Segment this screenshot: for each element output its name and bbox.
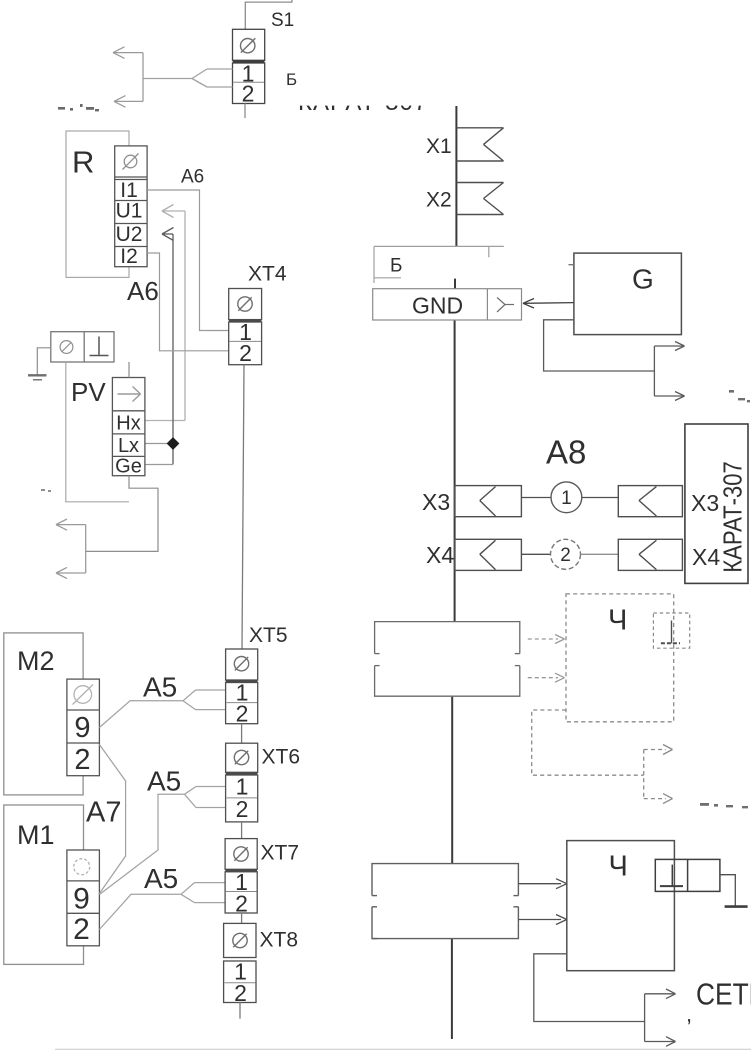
XT6 pin symbol — [234, 750, 248, 764]
svg-text:2: 2 — [235, 891, 248, 917]
arrow pair (G out) — [654, 342, 684, 401]
connector X4 (left) — [455, 539, 522, 570]
GND socket symbol — [497, 298, 514, 313]
XT4 pin symbol — [238, 297, 252, 311]
svg-text:A7: A7 — [86, 797, 121, 829]
wire M2:2 down to M1:9 — [99, 745, 125, 894]
svg-text:A5: A5 — [144, 863, 178, 894]
resistor unit R (outer box) — [66, 131, 129, 277]
faint clipped text КАРАТ-307 (bottom tips only) — [294, 86, 430, 116]
svg-text:9: 9 — [73, 883, 90, 916]
junction box (lower, two rows) — [372, 864, 518, 939]
PV terminal strip — [112, 378, 144, 476]
wire M2:9 to XT5 fork — [99, 701, 183, 728]
wire G output fork — [544, 320, 655, 371]
svg-text:X2: X2 — [426, 189, 452, 212]
svg-text:КАРАТ-307: КАРАТ-307 — [719, 461, 748, 573]
connector X4 (right) — [618, 539, 682, 570]
PV arrow-in symbol — [118, 387, 141, 402]
wire Ч bottom fork — [534, 954, 645, 1022]
wire XT5 to XT6 — [241, 724, 243, 744]
faint specks — [41, 489, 51, 492]
svg-text:2: 2 — [234, 980, 247, 1006]
connector X3 (left) — [455, 486, 522, 517]
svg-text:2: 2 — [73, 913, 90, 946]
probe symbol (dashed box) — [661, 621, 680, 644]
arrow pair (PV output) — [56, 519, 86, 579]
dashed wire Ч output — [532, 710, 666, 799]
S1 pin symbol (circle-slash) — [241, 38, 256, 53]
svg-text:X4: X4 — [692, 544, 720, 570]
dashed probe box — [653, 613, 689, 648]
arrow from G to GND — [523, 299, 574, 309]
flow meter M2 (outer box) — [4, 633, 83, 795]
ground — [28, 375, 47, 380]
junction (Lx tap) — [167, 437, 180, 450]
svg-text:X4: X4 — [426, 542, 454, 568]
battery symbol — [660, 865, 683, 887]
converter Ч (dashed box) — [566, 594, 674, 722]
arrow pair (СЕТЬ) — [645, 989, 676, 1046]
terminal block XT7 — [225, 839, 257, 913]
wire M1:2 to XT7 fork — [99, 894, 181, 929]
svg-text:I2: I2 — [120, 245, 138, 268]
faint clipped text row (left) — [58, 104, 99, 111]
svg-text:Hx: Hx — [116, 413, 140, 435]
svg-text:XT4: XT4 — [248, 263, 287, 286]
svg-text:2: 2 — [236, 701, 249, 727]
sensor circle symbol — [60, 341, 73, 354]
svg-text:X3: X3 — [422, 489, 450, 515]
M2 terminal strip — [67, 679, 100, 776]
wire XT4 to XT5 — [242, 365, 244, 649]
terminal block XT6 — [226, 743, 258, 822]
connector X2 — [456, 183, 503, 215]
svg-text:Lx: Lx — [118, 435, 139, 457]
svg-text:XT7: XT7 — [261, 842, 300, 865]
R terminal strip — [115, 146, 147, 267]
svg-text:XT5: XT5 — [249, 624, 288, 647]
wire I2 to XT4:2 — [147, 253, 229, 351]
wire — [582, 497, 619, 499]
svg-text:X1: X1 — [426, 135, 452, 158]
G stub — [569, 264, 575, 266]
dashed arrow (row 1 to Ч) — [528, 638, 558, 640]
R pin symbol (circle-slash) — [123, 154, 139, 170]
wire U1 (arrow) down to PV:Hx — [145, 205, 185, 421]
connector X1 — [456, 128, 503, 161]
wire (top feed into S1) — [245, 0, 292, 29]
arrow (row 2 to Ч) — [518, 915, 566, 925]
svg-text:Ч: Ч — [608, 605, 627, 637]
arrow (row 1 to Ч) — [518, 879, 566, 889]
cable fork A5 at XT6 — [185, 787, 226, 808]
flow meter M1 (outer box) — [4, 805, 84, 964]
svg-text:M1: M1 — [17, 820, 55, 850]
wire — [521, 497, 551, 499]
svg-text:M2: M2 — [17, 646, 55, 676]
cable marker 2 — [551, 539, 581, 569]
svg-text:Ge: Ge — [115, 456, 142, 478]
terminal GND — [373, 289, 522, 320]
wire battery to ground — [720, 875, 735, 906]
junction box (upper, two rows) — [375, 622, 520, 697]
flow computer PV (outer outline) — [66, 362, 129, 502]
terminal block S1 — [233, 29, 265, 103]
sensor box (circle + probe) — [51, 332, 114, 362]
cable fork A5 at XT7 — [181, 883, 225, 903]
device КАРАТ-307 — [685, 424, 748, 583]
svg-text:2: 2 — [236, 796, 249, 822]
svg-text:G: G — [632, 264, 654, 295]
svg-text:2: 2 — [560, 545, 571, 566]
svg-text:U1: U1 — [116, 200, 143, 223]
svg-text:9: 9 — [74, 712, 90, 744]
wire below XT8 — [239, 1003, 241, 1019]
svg-text:СЕТЬ: СЕТЬ — [696, 978, 751, 1012]
wire — [581, 553, 619, 555]
svg-text:GND: GND — [412, 293, 463, 319]
svg-text:Б: Б — [390, 256, 402, 277]
arrow pair (to external, top-left) — [113, 47, 143, 107]
wire sensor to PV top — [128, 362, 130, 378]
terminal block XT8 — [224, 923, 256, 1002]
wire (stub below S1) — [244, 104, 246, 119]
svg-text:A6: A6 — [127, 276, 159, 306]
partial box Б — [374, 246, 504, 283]
svg-text:A5: A5 — [143, 672, 177, 703]
svg-text:R: R — [72, 145, 94, 180]
svg-text:A5: A5 — [147, 766, 181, 797]
svg-text:Ч: Ч — [609, 851, 628, 883]
wire XT6 to XT7 — [241, 822, 243, 839]
wire XT7 to XT8 — [241, 913, 243, 923]
svg-text:PV: PV — [71, 377, 106, 407]
svg-text:X3: X3 — [691, 490, 719, 516]
faint marks — [729, 390, 750, 402]
wire sensor to ground — [37, 348, 51, 375]
wire I1 to XT4:1 — [147, 190, 229, 331]
cable fork A5 at XT5 — [183, 690, 226, 710]
svg-text:2: 2 — [239, 340, 252, 366]
dashed arrowheads — [663, 745, 673, 804]
svg-text:2: 2 — [242, 80, 255, 106]
XT7 pin symbol — [234, 847, 248, 861]
faint marks — [700, 803, 748, 808]
svg-text:1: 1 — [561, 488, 572, 509]
M1 terminal strip — [67, 850, 100, 946]
M2 pin symbol (circle-slash, light) — [73, 685, 94, 705]
sensor probe symbol — [90, 337, 109, 356]
page bottom edge — [55, 1048, 751, 1050]
converter Ч (solid box) — [567, 841, 675, 971]
svg-text:U2: U2 — [116, 223, 143, 246]
XT8 pin symbol — [233, 933, 247, 947]
svg-text:A6: A6 — [181, 167, 204, 188]
XT5 pin symbol — [234, 657, 248, 671]
svg-text:XT8: XT8 — [260, 929, 299, 952]
wire — [521, 553, 550, 555]
svg-text:S1: S1 — [271, 10, 294, 31]
M1 pin symbol (circle, light) — [74, 859, 90, 875]
cable fork to S1 pins — [143, 69, 233, 87]
connector X3 (right) — [618, 486, 682, 517]
wire M1:9 up to XT6 fork — [99, 794, 184, 894]
bus wire (main vertical) — [452, 106, 457, 1039]
generator G — [574, 253, 682, 335]
ground (battery) — [725, 905, 748, 908]
svg-text:XT6: XT6 — [262, 746, 301, 769]
battery box — [655, 859, 720, 891]
wire U2 (arrow) down to PV:Lx/Ge — [145, 228, 174, 465]
terminal block XT5 — [226, 649, 258, 724]
terminal block XT4 — [229, 289, 262, 365]
svg-text:2: 2 — [74, 744, 90, 776]
svg-text:,: , — [686, 1002, 692, 1027]
svg-text:A8: A8 — [546, 434, 586, 471]
cable marker 1 — [551, 482, 582, 513]
wire PV bottom to arrow fork — [86, 476, 158, 552]
dashed arrow (row 2 to Ч) — [528, 677, 558, 679]
